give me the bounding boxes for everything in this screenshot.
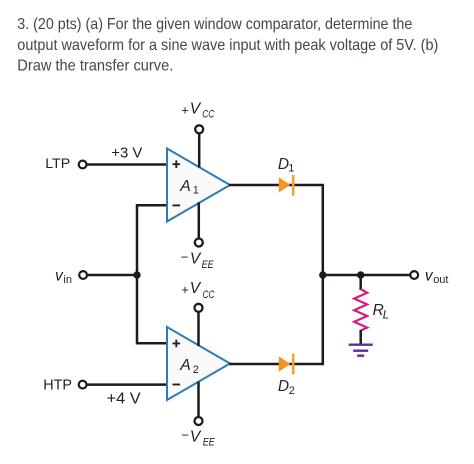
label A1 [179, 178, 199, 197]
svg-text:in: in [63, 274, 72, 286]
label LTP [45, 156, 70, 172]
terminal vout [410, 271, 418, 279]
label RL [373, 302, 390, 322]
node vin junction [133, 271, 140, 278]
label D1 [278, 156, 295, 175]
svg-text:CC: CC [202, 109, 214, 121]
label +3 V [111, 144, 143, 161]
label -VEE of A2 [181, 427, 215, 448]
wire A2 to -VEE [197, 382, 200, 417]
svg-text:+: + [181, 102, 189, 117]
ground [349, 345, 373, 356]
terminal HTP [79, 381, 87, 389]
label vout [425, 268, 449, 287]
svg-text:out: out [433, 274, 448, 286]
svg-text:1: 1 [288, 163, 294, 175]
svg-text:2: 2 [193, 364, 199, 376]
svg-text:V: V [190, 280, 202, 297]
svg-text:L: L [383, 310, 389, 322]
node RL tap [357, 271, 364, 278]
label D2 [278, 378, 295, 397]
question text line 3 [17, 58, 173, 75]
wire +VCC to A1 [198, 134, 201, 168]
op-amp A1 [167, 149, 230, 222]
svg-text:+3 V: +3 V [111, 144, 143, 161]
label A2 [179, 357, 199, 376]
svg-text:V: V [190, 251, 202, 268]
label vin [55, 267, 72, 286]
node output bus junction [319, 271, 326, 278]
svg-text:Draw the transfer curve.: Draw the transfer curve. [17, 58, 173, 75]
diode D1 [279, 175, 295, 196]
label +VCC of A1 [181, 101, 214, 121]
label -VEE of A1 [181, 250, 214, 271]
wire A1 to -VEE [198, 202, 201, 238]
svg-text:+: + [181, 282, 189, 297]
wire LTP to A1 noninverting input [87, 163, 168, 166]
wire vin to junction [88, 274, 137, 277]
wire RL top lead [359, 275, 362, 290]
question text line 1 [17, 16, 412, 33]
terminal vin [79, 271, 87, 279]
op-amp A2 [167, 327, 230, 400]
svg-text:output waveform for a sine wav: output waveform for a sine wave input wi… [17, 37, 438, 54]
svg-text:A: A [179, 178, 191, 195]
wire A2 output to output bus (under D2) [229, 363, 324, 366]
wire A1 inverting input to vin node [137, 205, 167, 272]
terminal LTP [79, 161, 87, 169]
svg-text:+4 V: +4 V [107, 390, 142, 407]
svg-text:V: V [190, 101, 202, 118]
wire output bus vertical [322, 185, 325, 364]
wire output node to vout [323, 274, 410, 277]
svg-text:CC: CC [203, 289, 215, 301]
label HTP [43, 378, 72, 394]
label +VCC of A2 [181, 280, 214, 301]
svg-text:D: D [278, 378, 289, 395]
wire RL bottom lead [359, 330, 362, 344]
wire HTP to A2 inverting input [87, 383, 168, 386]
label +4 V [107, 390, 142, 407]
svg-text:LTP: LTP [45, 156, 70, 172]
resistor RL [354, 289, 367, 331]
wire A1 output to output bus (under D1) [229, 184, 324, 187]
power terminal +VCC of A1 [195, 125, 203, 133]
svg-text:2: 2 [289, 385, 295, 397]
question text line 2 [17, 37, 438, 54]
svg-text:1: 1 [193, 185, 199, 197]
svg-text:EE: EE [203, 437, 216, 449]
wire +VCC to A2 [197, 312, 200, 346]
power terminal -VEE of A1 [195, 239, 203, 247]
wire junction to A2 noninverting input [137, 272, 167, 343]
power terminal -VEE of A2 [195, 417, 203, 425]
svg-text:V: V [190, 428, 202, 445]
svg-text:−: − [181, 250, 189, 265]
svg-text:3. (20 pts) (a) For the given: 3. (20 pts) (a) For the given window com… [17, 16, 412, 33]
svg-text:EE: EE [202, 259, 215, 271]
power terminal +VCC of A2 [195, 304, 203, 312]
svg-text:HTP: HTP [43, 378, 72, 394]
diode D2 [279, 354, 295, 375]
svg-text:−: − [181, 427, 189, 442]
svg-text:A: A [179, 357, 191, 374]
